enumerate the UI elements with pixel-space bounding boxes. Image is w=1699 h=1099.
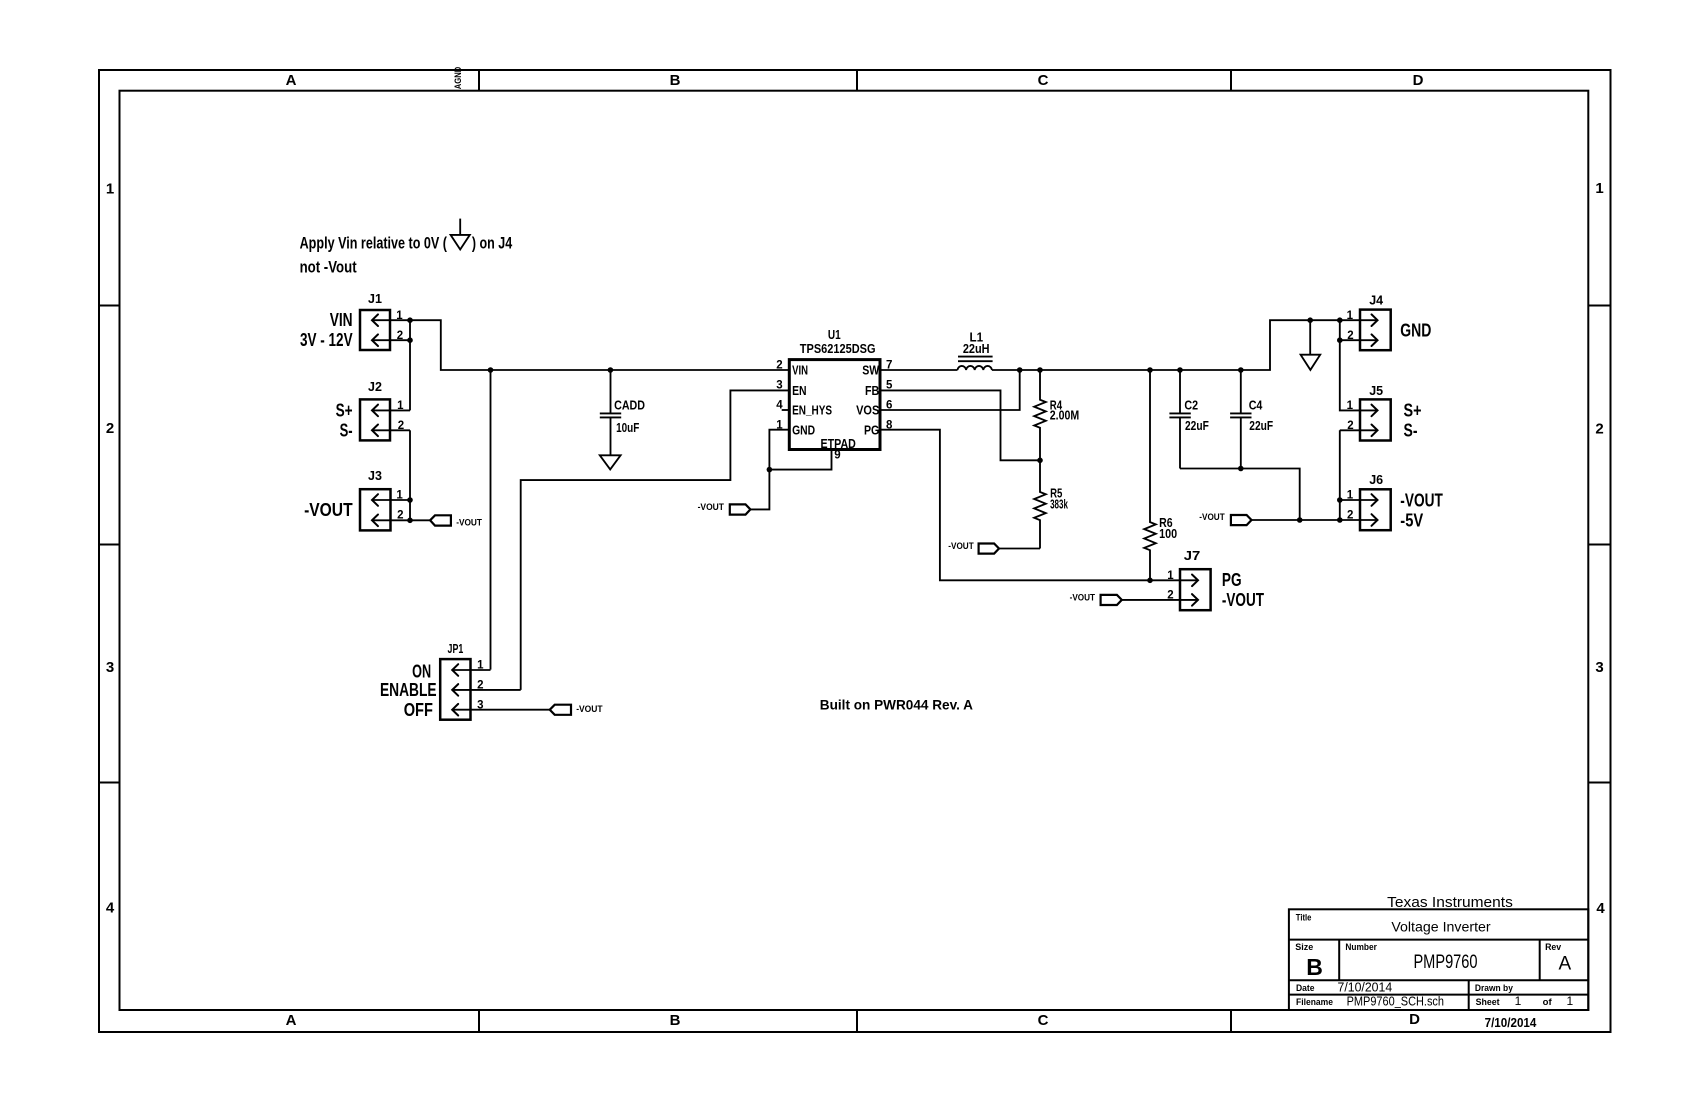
svg-text:-VOUT: -VOUT (1222, 590, 1264, 610)
net flag -VOUT at J6 pin2 (1199, 512, 1251, 525)
junction R4 top tap (1037, 367, 1043, 373)
svg-text:4: 4 (106, 900, 115, 917)
svg-text:J6: J6 (1369, 473, 1383, 487)
junction VIN bus tap to JP1 (488, 367, 494, 373)
junction rail to J6 line (1297, 517, 1303, 523)
wire J6 pin1 stub (1340, 499, 1378, 501)
ground symbol in note (451, 219, 470, 250)
wire R5 to -VOUT flag (999, 548, 1040, 550)
connector J2 (336, 380, 410, 440)
capacitor CADD 10uF (600, 370, 645, 455)
resistor R6 100 (1144, 370, 1177, 580)
svg-text:not -Vout: not -Vout (300, 258, 357, 277)
title block (1289, 894, 1588, 1010)
wire U1 EN to JP1 pin2 (521, 390, 790, 690)
connector J3 (304, 469, 410, 530)
svg-text:2: 2 (1347, 420, 1353, 432)
svg-text:JP1: JP1 (448, 642, 464, 656)
connector J6 (1347, 473, 1443, 530)
svg-text:J3: J3 (368, 469, 382, 483)
svg-text:B: B (670, 1012, 681, 1029)
svg-text:-VOUT: -VOUT (1199, 512, 1225, 523)
svg-text:2: 2 (106, 420, 114, 437)
svg-text:-VOUT: -VOUT (1070, 592, 1096, 603)
resistor R5 383k (1034, 460, 1068, 548)
svg-text:1: 1 (396, 310, 403, 322)
svg-text:VIN: VIN (792, 363, 808, 378)
svg-text:Filename: Filename (1296, 997, 1333, 1008)
connector JP1 (380, 642, 550, 720)
svg-text:S-: S- (1404, 420, 1418, 440)
svg-text:Built on PWR044 Rev. A: Built on PWR044 Rev. A (820, 697, 973, 713)
wire VIN bus to JP1 pin1 (490, 370, 492, 670)
svg-text:GND: GND (792, 423, 815, 438)
svg-text:-VOUT: -VOUT (304, 500, 353, 520)
wire U1 PG to J7 pin1 (880, 430, 1197, 581)
svg-text:J2: J2 (368, 380, 382, 394)
svg-text:Size: Size (1295, 942, 1313, 953)
svg-text:7/10/2014: 7/10/2014 (1485, 1015, 1537, 1030)
svg-text:ON: ON (412, 661, 431, 681)
svg-text:2: 2 (1347, 510, 1353, 522)
junction C4 top tap (1238, 367, 1244, 373)
net label AGND (453, 66, 463, 89)
svg-text:2: 2 (1595, 421, 1603, 438)
ground symbol at J4 (1301, 320, 1321, 370)
svg-text:Rev: Rev (1545, 942, 1562, 953)
connector J7 (1167, 549, 1264, 610)
svg-text:3: 3 (477, 699, 483, 711)
svg-text:-VOUT: -VOUT (1400, 490, 1443, 510)
svg-text:4: 4 (1596, 900, 1605, 917)
svg-text:1: 1 (1595, 180, 1603, 197)
note text: Apply Vin relative to 0V on J4, not -Vout (300, 233, 513, 276)
svg-text:EN_HYS: EN_HYS (792, 403, 832, 418)
svg-text:1: 1 (396, 490, 403, 502)
svg-text:1: 1 (1167, 570, 1174, 582)
svg-text:-VOUT: -VOUT (948, 541, 974, 552)
junction J3 pin1 (407, 497, 413, 503)
svg-text:Title: Title (1296, 913, 1312, 924)
svg-text:J7: J7 (1184, 549, 1201, 563)
svg-text:SW: SW (862, 363, 880, 378)
svg-text:of: of (1543, 997, 1553, 1008)
svg-text:Date: Date (1296, 983, 1315, 994)
resistor R4 2.00M (1034, 370, 1079, 460)
capacitor C4 22uF (1230, 370, 1273, 469)
net flag -VOUT at JP1 pin3 (550, 704, 603, 715)
junction R6 top tap (1147, 367, 1153, 373)
inductor L1 22uH (958, 331, 993, 371)
svg-text:TPS62125DSG: TPS62125DSG (800, 341, 876, 356)
connector J1 (300, 292, 410, 350)
wire -VOUT flag to J6 pin2 (1252, 519, 1378, 521)
wire U1 VOS up to output bus (880, 370, 1020, 410)
junction J3 pin2 (407, 518, 413, 524)
svg-text:EN: EN (792, 383, 807, 398)
junction VIN bus tap to CADD (608, 367, 614, 373)
svg-text:Sheet: Sheet (1476, 997, 1501, 1008)
svg-text:3V - 12V: 3V - 12V (300, 330, 353, 350)
junction J6 pin1 (1337, 497, 1343, 503)
wire J4.2/J5.1 riser (1340, 320, 1378, 410)
svg-text:PMP9760_SCH.sch: PMP9760_SCH.sch (1347, 994, 1444, 1008)
svg-text:10uF: 10uF (616, 421, 639, 435)
junction J5.2 riser at J6 line (1337, 517, 1343, 523)
svg-text:CADD: CADD (614, 399, 645, 413)
svg-text:100: 100 (1159, 527, 1177, 541)
svg-text:383k: 383k (1050, 498, 1068, 512)
svg-text:22uF: 22uF (1249, 419, 1273, 433)
wire J2 pin2 to J3 (409, 430, 411, 520)
junction C4 bottom (1238, 466, 1244, 472)
wire J3 pin2 to flag (410, 519, 430, 521)
svg-text:1: 1 (397, 400, 404, 412)
svg-text:C: C (1038, 1012, 1049, 1029)
svg-text:Number: Number (1345, 942, 1377, 953)
svg-text:PG: PG (1222, 570, 1242, 590)
junction VOS tap (1017, 367, 1023, 373)
svg-text:1: 1 (1515, 994, 1522, 1008)
junction GND symbol tap at J4 line (1307, 317, 1313, 323)
svg-text:VOS: VOS (856, 403, 879, 418)
wire J1 to J2 pin1 (409, 320, 411, 410)
svg-text:PMP9760: PMP9760 (1413, 951, 1477, 973)
svg-text:-VOUT: -VOUT (576, 704, 603, 715)
svg-text:-5V: -5V (1400, 510, 1423, 530)
wire U1 FB to R4/R5 node (880, 390, 1040, 460)
svg-text:2.00M: 2.00M (1050, 409, 1079, 423)
junction C2 top tap (1177, 367, 1183, 373)
svg-text:Voltage Inverter: Voltage Inverter (1391, 919, 1491, 934)
svg-text:2: 2 (1167, 590, 1173, 602)
svg-text:1: 1 (1347, 400, 1354, 412)
svg-text:3: 3 (106, 659, 114, 676)
svg-text:FB: FB (865, 383, 879, 398)
svg-text:A: A (286, 1012, 297, 1029)
svg-text:S+: S+ (336, 400, 353, 420)
wire U1 GND pin down to -VOUT flag (750, 430, 789, 510)
svg-text:2: 2 (776, 360, 782, 372)
wire VIN bus from J1 to U1 (410, 320, 789, 370)
capacitor C2 22uF (1169, 370, 1209, 469)
junction J4 pin2 (1337, 337, 1343, 343)
svg-text:1: 1 (106, 181, 114, 198)
junction R6/PG/J7 node (1147, 578, 1153, 584)
IC U1 TPS62125DSG (776, 328, 893, 462)
net flag -VOUT at J7 pin2 (1070, 592, 1122, 605)
connector J4 (1347, 294, 1432, 351)
svg-text:-VOUT: -VOUT (698, 502, 725, 513)
svg-text:PG: PG (864, 423, 879, 438)
svg-text:VIN: VIN (330, 310, 353, 330)
svg-text:1: 1 (1566, 994, 1573, 1008)
svg-text:2: 2 (1347, 330, 1353, 342)
svg-text:22uF: 22uF (1185, 419, 1209, 433)
wire J5 pin2 stub (1340, 429, 1378, 431)
svg-text:Texas Instruments: Texas Instruments (1387, 894, 1513, 911)
wire U1 ETPAD pin9 to GND net (769, 450, 831, 470)
svg-text:J1: J1 (368, 292, 382, 306)
svg-text:2: 2 (398, 420, 404, 432)
net flag -VOUT at J3 (430, 515, 482, 528)
svg-text:7/10/2014: 7/10/2014 (1338, 980, 1393, 995)
ground at CADD (600, 455, 621, 469)
svg-text:S+: S+ (1404, 400, 1422, 420)
svg-text:J4: J4 (1369, 294, 1383, 308)
svg-text:B: B (1306, 954, 1323, 980)
wire J4 pin2 stub (1340, 339, 1378, 341)
net flag -VOUT at U1 GND (698, 502, 751, 515)
svg-text:C4: C4 (1249, 398, 1263, 412)
svg-text:ENABLE: ENABLE (380, 680, 437, 700)
svg-text:-VOUT: -VOUT (456, 517, 482, 528)
svg-text:A: A (1559, 954, 1572, 975)
svg-text:) on J4: ) on J4 (472, 233, 513, 252)
wire U1 SW to L1 (880, 369, 958, 371)
svg-text:2: 2 (477, 679, 483, 691)
svg-text:C: C (1038, 72, 1049, 89)
wire J5.2 riser down to J6 (1339, 430, 1341, 520)
junction J1 pin2 (407, 337, 413, 343)
svg-text:22uH: 22uH (963, 342, 990, 356)
svg-text:AGND: AGND (453, 66, 463, 89)
net flag -VOUT at R5 (948, 541, 999, 554)
svg-text:OFF: OFF (404, 700, 433, 720)
wire L1 to output bus and up to J4 (992, 320, 1378, 370)
svg-text:GND: GND (1400, 320, 1431, 340)
svg-text:A: A (286, 72, 297, 89)
svg-text:1: 1 (1347, 490, 1354, 502)
wire -VOUT flag to J7 pin2 (1122, 599, 1198, 601)
svg-text:B: B (670, 72, 681, 89)
svg-text:D: D (1409, 1011, 1420, 1028)
connector J5 (1347, 384, 1422, 441)
svg-text:2: 2 (397, 330, 403, 342)
svg-text:ETPAD: ETPAD (821, 436, 856, 451)
svg-text:3: 3 (1595, 659, 1603, 676)
wire -VOUT rail C2/C4 bottoms to J6 line (1180, 469, 1300, 521)
junction J4.2 riser tap (1337, 317, 1343, 323)
svg-text:2: 2 (397, 510, 403, 522)
svg-text:Apply Vin relative to 0V (: Apply Vin relative to 0V ( (300, 233, 448, 252)
junction FB node (1037, 458, 1043, 464)
svg-text:S-: S- (340, 420, 353, 440)
junction ETPAD/GND (767, 467, 773, 473)
svg-text:J5: J5 (1369, 384, 1383, 398)
svg-text:1: 1 (477, 659, 484, 671)
svg-text:1: 1 (1347, 310, 1354, 322)
svg-text:Drawn by: Drawn by (1475, 983, 1514, 994)
svg-text:9: 9 (834, 450, 840, 462)
svg-text:C2: C2 (1184, 398, 1198, 412)
junction J1 pin1 (407, 317, 413, 323)
svg-text:D: D (1413, 72, 1424, 89)
